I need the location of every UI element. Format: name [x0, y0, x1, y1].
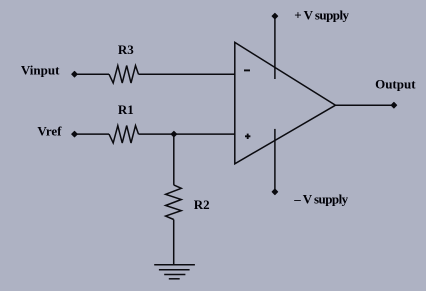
wire R1 to op-amp noninverting input [139, 133, 235, 135]
label Output [375, 76, 416, 91]
node Vinput terminal dot [72, 71, 78, 77]
svg-text:R1: R1 [118, 102, 134, 117]
svg-text:– V supply: – V supply [293, 191, 348, 206]
label R2 [194, 197, 210, 212]
svg-text:Output: Output [375, 76, 416, 91]
wire -V supply into op-amp [274, 129, 276, 192]
op-amp inverting input minus sign [244, 69, 250, 71]
node +V supply terminal dot [272, 13, 278, 19]
wire junction down to R2 [173, 134, 175, 185]
resistor R1 [109, 126, 139, 143]
ground [154, 265, 195, 279]
label - V supply [293, 191, 348, 206]
label R3 [118, 42, 134, 57]
wire op-amp output [336, 104, 394, 106]
label R1 [118, 102, 134, 117]
svg-text:R3: R3 [118, 42, 134, 57]
svg-text:Vinput: Vinput [21, 62, 60, 77]
node junction dot R1/R2 [171, 131, 177, 137]
wire +V supply into op-amp [274, 16, 276, 79]
label Vref [37, 124, 62, 139]
op-amp noninverting input plus sign [245, 134, 250, 139]
label Vinput [21, 62, 60, 77]
node Vref terminal dot [72, 131, 78, 137]
op-amp U1 triangle [235, 42, 336, 163]
wire Vinput dot to R3 [75, 73, 109, 75]
svg-text:Vref: Vref [37, 124, 62, 139]
node Output terminal dot [391, 102, 397, 108]
node -V supply terminal dot [272, 189, 278, 195]
resistor R2 [166, 185, 182, 220]
wire Vref dot to R1 [75, 133, 109, 135]
svg-text:R2: R2 [194, 197, 210, 212]
svg-text:+ V supply: + V supply [294, 8, 349, 23]
wire R3 to op-amp inverting input [139, 73, 235, 75]
wire R2 to ground [173, 220, 175, 265]
resistor R3 [109, 66, 139, 83]
label + V supply [294, 8, 349, 23]
